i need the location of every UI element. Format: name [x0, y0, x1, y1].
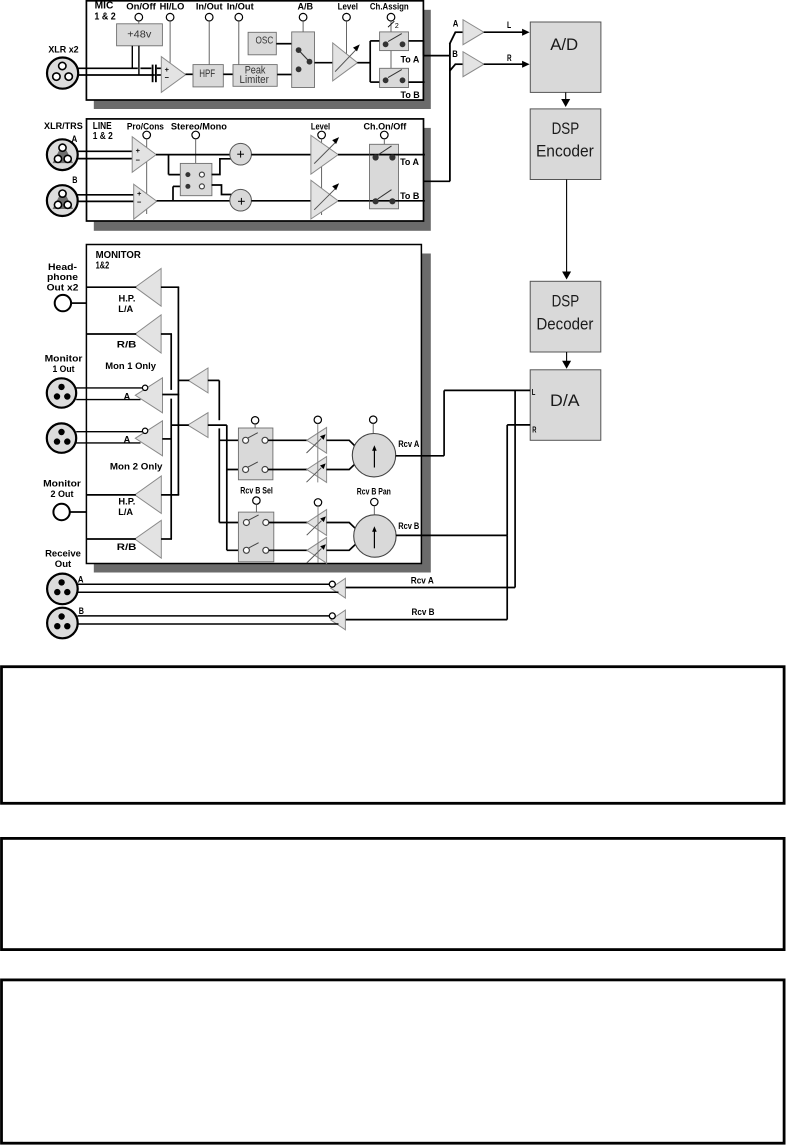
monitor1 XLR B body [47, 423, 76, 452]
fader 4 gain line [307, 549, 322, 564]
wire cap to preamp - [157, 74, 162, 76]
monitor1 XLR A pin2 [54, 393, 60, 399]
A/B switch contact mic [296, 66, 302, 72]
A/B switch contact osc [296, 47, 302, 53]
MONITOR section box [86, 245, 421, 564]
control stem Ch.Assign [390, 21, 392, 32]
svg-text:Stereo/Mono: Stereo/Mono [171, 121, 227, 132]
bus amp 2 output stub [171, 424, 189, 426]
Ch.Assign switch B box [380, 68, 409, 87]
riser pan A to D/A L [443, 390, 445, 455]
svg-text:In/Out: In/Out [196, 1, 223, 12]
stereo/mono out B [199, 184, 204, 189]
wire sum A to A/D [484, 31, 524, 33]
Level amp MIC gain line [335, 49, 356, 71]
Ch.Assign switch A box [380, 32, 409, 51]
wire OSC to A/B switch [276, 43, 291, 45]
RcvB sel pin LR [263, 547, 269, 553]
svg-text:On/Off: On/Off [126, 1, 156, 12]
branch D/A L to receive A [514, 390, 516, 587]
coupling capacitor bar 2 [155, 65, 157, 83]
A/B switch lever [299, 50, 310, 62]
receive out XLR A body [47, 574, 78, 605]
A/B switch pole [307, 59, 313, 65]
Rcv B sel control circle [253, 497, 260, 504]
Level amp LINE B [311, 180, 338, 219]
headphone out 1 jack [55, 295, 71, 311]
fader 1 (Rcv A L) [307, 427, 327, 453]
mic hot wire (to cap) [78, 67, 138, 69]
Rcv B sel control stem [255, 504, 257, 512]
wire R/B amp 2 to box edge [87, 538, 136, 540]
wire splitter to Ch.Assign A [370, 40, 379, 42]
wire riser to RcvB sel in1 [219, 522, 243, 524]
Rcv A pan pot [352, 434, 395, 477]
Ch.Assign gang link [390, 51, 392, 69]
stereo/mono contact B [185, 184, 190, 189]
Level amp LINE A gain arrowhead [332, 137, 339, 144]
arrowhead into A/D L [522, 29, 530, 36]
arrowhead into A/D R [522, 61, 530, 68]
svg-text:Ch.Assign: Ch.Assign [370, 1, 409, 12]
ch on/off A contact right [389, 154, 395, 160]
wire sum B to A/D [484, 63, 524, 65]
monitor1 XLR A body [47, 378, 76, 407]
Rcv A pan control circle [370, 416, 377, 423]
monitor1 XLR B pin3 [64, 438, 70, 444]
fader pair 1 control circle [314, 416, 321, 423]
fader pair 2 control line [317, 506, 319, 563]
svg-text:In/Out: In/Out [227, 1, 255, 12]
wire sum A to level A [251, 154, 312, 156]
wire fader1 to pan A [326, 440, 355, 446]
svg-text:+: + [137, 189, 142, 198]
Rcv A sel control stem [254, 424, 256, 428]
control stem In/Out HPF [208, 21, 210, 65]
Rcv A sel control circle [251, 417, 258, 424]
fader 4 arrowhead [320, 544, 326, 550]
XLR/TRS B pin 1 [59, 190, 66, 197]
wire HP amp 2 to box edge [87, 494, 136, 496]
svg-text:Out: Out [55, 559, 72, 570]
mon1 amp A invert circle [142, 385, 147, 390]
line amp A [132, 137, 156, 173]
A/B selector switch box [292, 32, 315, 88]
Level amp LINE A gain line [314, 142, 336, 164]
XLR/TRS B pin 3 [64, 201, 71, 208]
wire ch on/off B out [399, 200, 425, 202]
HPF box [193, 65, 223, 87]
svg-text:−: − [136, 156, 141, 165]
control circle On/Off [135, 13, 143, 21]
control stem Pro/Cons [146, 139, 148, 214]
RcvB sel lever upper [249, 515, 259, 520]
monitor bus B vertical [177, 287, 179, 495]
Ch.Assign A contact left [383, 41, 389, 47]
receive amp B [331, 610, 346, 630]
bus bend to sum amp A [450, 32, 456, 44]
receive B hot wire [78, 615, 330, 617]
XLR/TRS A insert [56, 147, 71, 161]
svg-text:XLR/TRS: XLR/TRS [44, 121, 83, 132]
receive out XLR B body [47, 608, 78, 639]
fader 2 arrowhead [320, 463, 326, 469]
wire DSP Encoder to Decoder [566, 180, 568, 272]
stereo/mono out A [199, 172, 204, 177]
Ch.Assign B contact right [400, 77, 406, 83]
summing amp A [463, 20, 484, 45]
Rcv B pan control stem [373, 506, 375, 515]
ch on/off A contact left [373, 154, 379, 160]
control circle In/Out Peak [235, 13, 243, 21]
mic preamp U1 [161, 57, 185, 93]
svg-text:Out x2: Out x2 [47, 283, 79, 294]
receive amp A invert circle [329, 581, 335, 587]
arrowhead into DSP Decoder [562, 272, 571, 280]
wire stereo/mono out B [212, 185, 232, 195]
svg-text:MONITOR: MONITOR [96, 250, 142, 261]
wire RcvA sel out1 to fader1 [268, 439, 308, 441]
wire RcvB sel out1 to fader3 [269, 522, 308, 524]
bus amp 1 input wire [208, 379, 220, 381]
MONITOR section drop shadow [94, 254, 431, 573]
wire RcvB sel out2 to fader4 [269, 549, 308, 551]
svg-text:OSC: OSC [256, 35, 274, 47]
svg-text:XLR x2: XLR x2 [48, 45, 78, 56]
XLR/TRS B pin 2 [54, 201, 61, 208]
XLR/TRS connector A body [47, 139, 78, 170]
monitor bus amp 2 [188, 413, 208, 438]
control circle Level MIC [343, 13, 351, 21]
RcvA sel pin UR [262, 437, 268, 443]
junction rise to stereo/mono in B [172, 186, 174, 200]
ch on/off wire B inside [370, 200, 399, 202]
svg-text:Ch.On/Off: Ch.On/Off [364, 121, 408, 132]
svg-text:H.P.: H.P. [119, 293, 136, 304]
HP amp input stub [161, 286, 179, 288]
wire LINE out to bus [424, 180, 451, 182]
fader 1 gain line [307, 439, 322, 454]
svg-text:−: − [165, 73, 170, 82]
control stem Level MIC [346, 21, 348, 61]
XLR/TRS A pin 2 [54, 155, 61, 162]
wire to stereo/mono contact A [169, 174, 186, 176]
headphone out 2 jack [53, 504, 69, 520]
LINE section drop shadow [94, 128, 431, 231]
wire riser to RcvA sel in2 [227, 469, 243, 471]
svg-text:DSP: DSP [552, 119, 580, 138]
wire riser to RcvA sel in1 [219, 439, 243, 441]
svg-text:1 & 2: 1 & 2 [94, 12, 116, 23]
slash on Ch.Assign stem [388, 21, 394, 27]
control stem A/B [302, 21, 304, 32]
headphone 2 stub [70, 511, 87, 513]
XLR/TRS connector B body [47, 185, 78, 216]
wire fader2 to pan A [326, 463, 355, 469]
branch D/A R to receive B [506, 535, 508, 619]
fader 3 arrowhead [320, 516, 326, 522]
wire HPF to Peak Limiter [223, 73, 233, 75]
wire line amp A to sum circle A [156, 154, 230, 156]
wire pan A out [396, 455, 445, 457]
receive A cold wire [78, 591, 339, 593]
fader 3 gain line [307, 521, 322, 536]
HP L/A amp (mon1) [135, 269, 161, 307]
Stereo/Mono switch box [180, 163, 212, 195]
control circle A/B [299, 13, 307, 21]
receive amp B invert circle [329, 613, 335, 619]
DSP Decoder box [530, 281, 601, 352]
RcvB sel lever lower [249, 543, 259, 548]
svg-text:Receive: Receive [45, 548, 81, 559]
stereo/mono contact A [185, 172, 190, 177]
receive B cold wire [78, 623, 339, 625]
svg-text:Rcv B: Rcv B [412, 607, 435, 618]
svg-text:phone: phone [47, 272, 78, 283]
wire Ch.Assign B out [409, 81, 425, 83]
receive XLR A pin3 [64, 589, 70, 595]
mon2 A hot wire [76, 431, 143, 433]
svg-text:1&2: 1&2 [96, 261, 110, 272]
R/B amp (mon1) [135, 315, 161, 353]
svg-text:+48v: +48v [127, 30, 151, 41]
XLR/TRS A pin 3 [64, 155, 71, 162]
Rcv B pan arrow line [373, 530, 375, 548]
svg-text:A: A [124, 435, 131, 446]
svg-text:1 & 2: 1 & 2 [93, 131, 113, 142]
Ch.Assign A lever [388, 34, 402, 42]
riser pan B to D/A R [506, 425, 508, 536]
receive amp A [331, 578, 346, 598]
Rcv A Sel switch box [238, 428, 273, 480]
phantom power box +48v [117, 24, 163, 46]
mon1 A hot wire [76, 387, 143, 389]
RcvA sel lever upper [248, 433, 258, 438]
svg-text:D/A: D/A [550, 391, 580, 410]
bus bend to sum amp B [450, 64, 456, 71]
ch on/off B contact right [389, 198, 395, 204]
svg-text:Monitor: Monitor [45, 353, 83, 364]
svg-text:Level: Level [338, 1, 358, 12]
MIC section drop shadow [94, 10, 431, 109]
svg-text:MIC: MIC [95, 1, 114, 12]
svg-text:A: A [78, 574, 84, 585]
Rcv B pan pot [354, 515, 396, 557]
wire A/D to DSP Encoder [565, 92, 567, 100]
svg-text:R/B: R/B [117, 339, 137, 350]
Ch.Assign A contact right [400, 41, 406, 47]
mon2 amp A invert circle [142, 428, 147, 433]
control stem Stereo/Mono [195, 139, 197, 164]
wire DSP Decoder to D/A [566, 352, 568, 361]
svg-text:Rcv B Sel: Rcv B Sel [240, 486, 273, 496]
wire fader3 to pan B [326, 523, 355, 529]
mon1 A cold wire [76, 399, 140, 401]
svg-text:R: R [532, 425, 536, 434]
svg-text:To A: To A [401, 55, 420, 66]
monitor bus A vertical upper [170, 334, 172, 390]
svg-text:Level: Level [311, 121, 330, 132]
riser to Rcv sel lower [226, 425, 228, 550]
MIC section box [86, 1, 423, 100]
control stem In/Out Peak [238, 21, 240, 65]
ch on/off B contact left [373, 198, 379, 204]
svg-text:Rcv B Pan: Rcv B Pan [357, 487, 391, 497]
riser to Rcv sel upper (part 2) [218, 428, 220, 522]
mic cold wire [78, 74, 155, 76]
receive B line [345, 619, 507, 621]
monitor bus A vertical lower [170, 399, 172, 539]
mon2 A cold wire [76, 442, 140, 444]
coupling capacitor bar 1 [152, 65, 154, 83]
control circle Pro/Cons [143, 131, 151, 139]
arrowhead into D/A [562, 361, 571, 369]
empty frame 3 [2, 980, 785, 1143]
svg-text:R: R [507, 53, 512, 64]
svg-text:Decoder: Decoder [536, 314, 593, 333]
splitter vertical to Ch.Assign [369, 41, 371, 82]
svg-text:L: L [507, 20, 511, 31]
wire into sum amp A [455, 31, 464, 33]
empty frame 1 [2, 667, 785, 804]
sum circle A [230, 143, 252, 165]
RcvA sel lever lower [248, 462, 258, 467]
control stem On/Off [138, 21, 140, 24]
Level amp LINE B gain line [314, 188, 336, 210]
fader 4 (Rcv B R) [307, 537, 327, 563]
wire stereo/mono out A [212, 159, 232, 175]
Peak Limiter box [233, 65, 277, 87]
monitor bus amp 1 [188, 368, 208, 393]
svg-text:A/B: A/B [297, 1, 313, 12]
monitor1 XLR A pin1 [58, 384, 64, 390]
svg-text:L/A: L/A [118, 507, 133, 518]
arrowhead into DSP Encoder [561, 99, 570, 107]
riser to Rcv sel upper (part 1) [218, 380, 220, 420]
control circle Ch.Assign [387, 13, 395, 21]
svg-text:−: − [137, 198, 142, 207]
RcvB sel pin UL [243, 520, 249, 526]
wire into D/A R [507, 424, 530, 426]
wire Ch.Assign A down box edge [422, 41, 424, 56]
fader pair 2 control circle [314, 499, 321, 506]
Ch.On/Off switch box [370, 144, 399, 209]
mon1 out amp A [135, 378, 162, 413]
receive A hot wire [78, 583, 330, 585]
RcvA sel pin LL [243, 467, 249, 473]
phantom feed wire 1 [131, 46, 133, 69]
line B hot wire [78, 194, 135, 196]
receive XLR A pin1 [58, 579, 64, 585]
Rcv A pan arrow line [373, 449, 375, 468]
ch on/off wire A inside [370, 154, 399, 156]
wire into sum amp B [455, 63, 464, 65]
HP amp 2 input stub [161, 494, 179, 496]
svg-text:Rcv B: Rcv B [398, 521, 419, 532]
D/A converter box [530, 370, 601, 441]
mic hot wire after crossover [140, 67, 151, 69]
svg-text:A: A [453, 19, 459, 30]
Level amp MIC gain arrowhead [353, 44, 360, 51]
monitor1 XLR A pin3 [64, 393, 70, 399]
wire riser to RcvB sel in2 [227, 549, 244, 551]
svg-text:L/A: L/A [118, 304, 133, 315]
wire cap to preamp + [157, 67, 162, 69]
mon1 amp A input stub [162, 394, 179, 396]
svg-text:Rcv A: Rcv A [411, 575, 434, 586]
line amp B [134, 184, 157, 219]
line A hot wire [78, 150, 134, 152]
receive XLR B pin1 [58, 613, 64, 619]
control stem Level LINE [321, 139, 323, 215]
svg-text:DSP: DSP [552, 291, 580, 310]
empty frame 2 [2, 838, 785, 949]
RcvA sel pin UL [243, 437, 249, 443]
XLR/TRS B insert [56, 193, 71, 207]
mon2 amp A input stub [162, 438, 172, 440]
bus amp 1 output stub [178, 379, 189, 381]
control stem Ch.On/Off [383, 139, 385, 144]
wire level B to ch on/off [338, 200, 376, 202]
monitor1 XLR B pin1 [58, 429, 64, 435]
fader pair 1 control line [317, 424, 319, 483]
control circle HI/LO [166, 13, 174, 21]
svg-text:Mon 2 Only: Mon 2 Only [110, 462, 163, 473]
svg-text:A/D: A/D [550, 35, 578, 54]
LINE section box [87, 119, 424, 221]
svg-text:To B: To B [400, 191, 419, 202]
fader 2 (Rcv A R) [307, 457, 327, 483]
junction drop to stereo/mono in A [168, 155, 170, 175]
wire ch on/off A out [399, 154, 425, 156]
sum circle B [230, 189, 252, 211]
svg-text:To A: To A [400, 157, 419, 168]
XLR x2 pin 3 [65, 73, 72, 80]
wire pan B out [396, 534, 507, 536]
RcvB sel pin UR [263, 520, 269, 526]
svg-text:HI/LO: HI/LO [160, 1, 185, 12]
OSC box [248, 32, 276, 55]
XLR x2 pin 2 [53, 73, 60, 80]
wire A/B switch to Level amp [315, 62, 334, 64]
headphone 1 stub [71, 302, 86, 304]
wire fader4 to pan B [326, 544, 355, 550]
mon2 out amp A [135, 421, 162, 456]
monitor1 XLR B pin2 [54, 438, 60, 444]
wire HP amp to box edge [87, 286, 136, 288]
control circle Stereo/Mono [192, 131, 200, 139]
R/B amp input stub [161, 333, 172, 335]
summing amp B [463, 52, 484, 77]
svg-text:Rcv A: Rcv A [398, 439, 419, 450]
RcvA sel pin LR [262, 467, 268, 473]
fader 1 arrowhead [320, 434, 326, 440]
R/B amp (mon2) [135, 520, 162, 558]
svg-text:+: + [136, 146, 141, 155]
svg-text:B: B [79, 606, 84, 617]
svg-text:2 Out: 2 Out [51, 489, 75, 500]
wire Peak Limiter to A/B switch [277, 74, 292, 76]
svg-text:HPF: HPF [199, 68, 215, 80]
wire Level amp to splitter [357, 62, 370, 64]
svg-text:Limiter: Limiter [240, 74, 270, 86]
wire R/B amp to box edge [87, 333, 136, 335]
Ch.Assign B lever [388, 70, 402, 78]
Rcv A pan control stem [372, 423, 374, 433]
control circle In/Out HPF [205, 13, 213, 21]
R/B amp 2 input stub [161, 538, 172, 540]
XLR x2 connector body [47, 58, 78, 89]
